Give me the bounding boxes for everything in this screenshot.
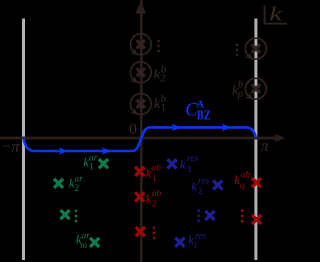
antiresonant cross k1ar xyxy=(99,159,108,168)
pole cross kpb xyxy=(252,85,260,93)
circle kpb direction arrowhead xyxy=(245,92,253,100)
circle k2b direction arrowhead xyxy=(130,76,138,84)
svg-text:ab: ab xyxy=(152,189,162,199)
svg-text:1: 1 xyxy=(152,174,157,184)
bound-state pole circle k1b xyxy=(130,94,151,115)
svg-text:BZ: BZ xyxy=(197,107,211,123)
svg-text:2: 2 xyxy=(152,200,157,210)
svg-text:k: k xyxy=(269,4,283,26)
red vertical dots lower xyxy=(153,227,155,240)
svg-text:1: 1 xyxy=(89,163,94,173)
svg-text:q: q xyxy=(240,181,245,191)
bound-state pole circle on pi-line (top) xyxy=(246,38,267,59)
contour arrowhead 3 (upper segment) xyxy=(172,124,182,132)
bound-state pole circle kpb on pi-line xyxy=(246,78,267,99)
svg-text:res: res xyxy=(198,176,210,186)
svg-text:res: res xyxy=(195,232,207,242)
antibound cross k1ab xyxy=(135,167,144,176)
svg-text:m: m xyxy=(80,241,87,251)
navy vertical dots xyxy=(197,210,199,222)
vertical dots for higher bound states xyxy=(157,40,159,52)
antiresonant cross 3 xyxy=(61,210,70,219)
circle direction arrowhead xyxy=(245,52,253,60)
right Brillouin-zone boundary line at +pi xyxy=(254,19,257,261)
contour arrowhead 2 (lower segment) xyxy=(102,147,112,155)
svg-text:p: p xyxy=(237,88,244,100)
resonant cross klres xyxy=(175,238,184,247)
svg-text:2: 2 xyxy=(198,187,203,197)
svg-text:1: 1 xyxy=(161,102,167,114)
svg-text:res: res xyxy=(187,154,199,164)
antibound cross k2ab xyxy=(135,192,144,201)
antiresonant cross k2ar xyxy=(54,179,63,188)
svg-text:0: 0 xyxy=(129,121,137,138)
bound-state pole circle k3b (top) xyxy=(130,34,151,55)
red vertical dots on pi-line column xyxy=(241,209,243,222)
resonant cross k1res xyxy=(167,159,176,168)
svg-text:2: 2 xyxy=(74,184,79,194)
contour arrowhead 4 (upper segment) xyxy=(222,124,232,132)
svg-text:1: 1 xyxy=(187,165,192,175)
bound-state pole circle k2b xyxy=(130,62,151,83)
svg-text:ar: ar xyxy=(81,232,90,242)
green vertical dots xyxy=(75,210,77,222)
vertical dots left of top pi circle xyxy=(236,44,238,56)
pole cross xyxy=(252,45,260,53)
svg-text:k: k xyxy=(191,178,197,193)
svg-text:π: π xyxy=(261,138,270,155)
contour arrowhead 1 (lower segment) xyxy=(59,147,69,155)
svg-text:k: k xyxy=(180,157,186,172)
svg-text:ab: ab xyxy=(241,170,251,180)
resonant cross (middle lower) xyxy=(205,211,214,220)
svg-text:l: l xyxy=(194,242,197,252)
svg-text:−π: −π xyxy=(1,138,21,155)
pole cross k1b xyxy=(137,100,145,108)
resonant cross k2res xyxy=(213,180,222,189)
antiresonant cross kmar xyxy=(90,238,99,247)
svg-text:ab: ab xyxy=(152,164,162,174)
antibound cross kqab on pi-line xyxy=(252,178,261,187)
svg-text:2: 2 xyxy=(160,72,166,84)
imaginary axis arrowhead xyxy=(135,1,146,14)
real axis arrowhead xyxy=(274,134,285,142)
complex-plane corner symbol xyxy=(264,6,287,25)
antibound cross on pi-line (lower) xyxy=(252,215,261,224)
left Brillouin-zone boundary line at -pi xyxy=(22,19,25,261)
antibound cross 3 xyxy=(136,227,145,236)
pole cross k2b xyxy=(137,68,145,76)
pole cross k3b xyxy=(137,40,145,48)
circle k1b direction arrowhead xyxy=(130,107,138,115)
imaginary k axis xyxy=(140,0,143,262)
svg-text:k: k xyxy=(188,232,194,247)
real k axis xyxy=(0,137,276,140)
circle k3b direction arrowhead xyxy=(130,48,138,56)
contour C_BZ^A xyxy=(24,127,256,151)
